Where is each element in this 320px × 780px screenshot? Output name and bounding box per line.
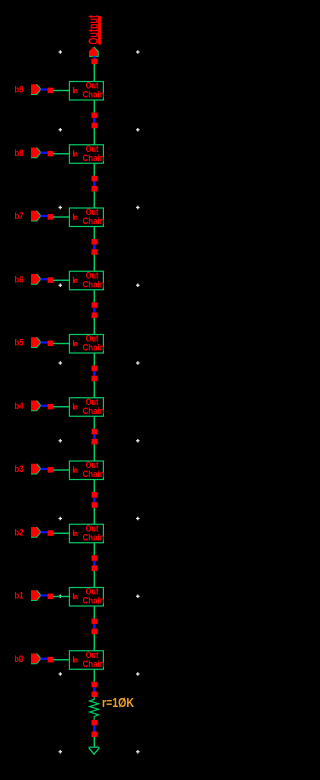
svg-text:b4: b4 [15, 400, 25, 411]
svg-text:Chain: Chain [83, 532, 105, 542]
svg-text:Chain: Chain [83, 90, 105, 100]
svg-text:b6: b6 [15, 273, 24, 284]
svg-text:b9: b9 [15, 84, 24, 95]
svg-text:b7: b7 [15, 210, 24, 221]
svg-text:Chain: Chain [83, 659, 105, 669]
svg-text:Chain: Chain [83, 596, 105, 606]
svg-text:r=1ØK: r=1ØK [102, 695, 134, 710]
svg-text:Chain: Chain [83, 469, 105, 479]
svg-text:Chain: Chain [83, 343, 105, 353]
svg-text:b8: b8 [15, 147, 24, 158]
svg-text:b5: b5 [15, 337, 24, 348]
svg-text:b1: b1 [15, 590, 24, 601]
svg-text:Chain: Chain [83, 406, 105, 416]
svg-text:bØ: bØ [15, 653, 24, 664]
svg-text:b2: b2 [15, 526, 24, 537]
svg-text:Chain: Chain [83, 216, 105, 226]
svg-text:Chain: Chain [83, 153, 105, 163]
svg-text:b3: b3 [15, 463, 24, 474]
svg-text:Chain: Chain [83, 279, 105, 289]
